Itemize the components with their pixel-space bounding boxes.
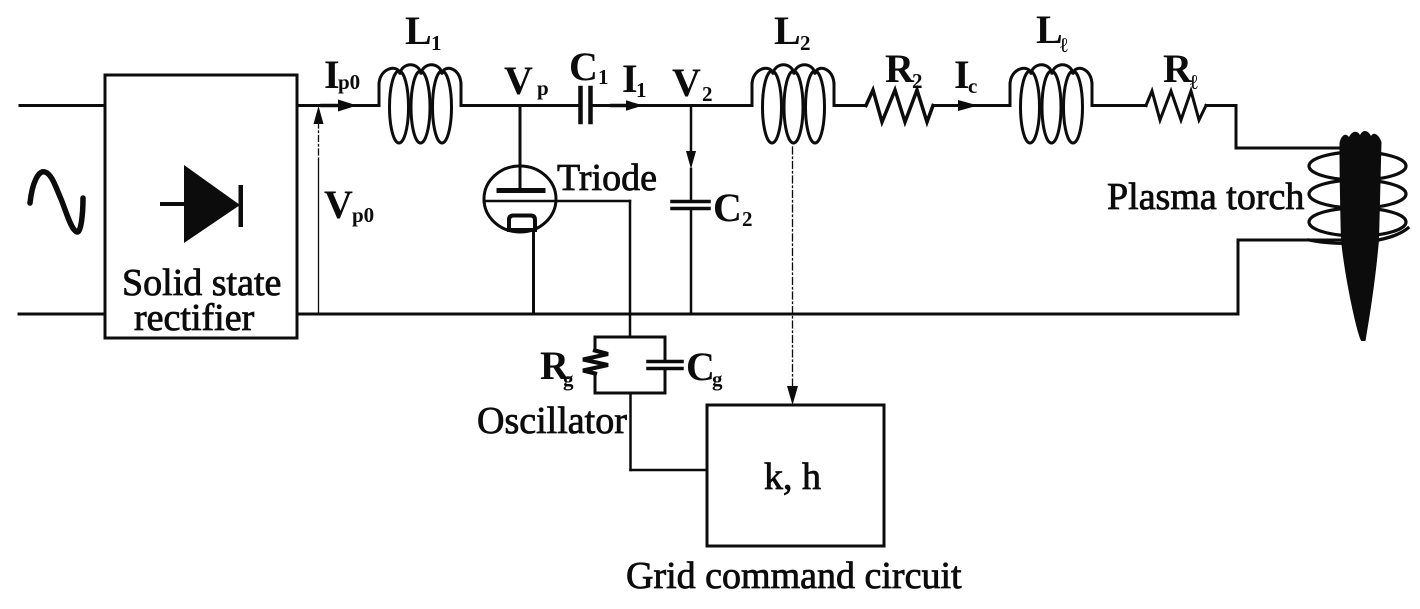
bottom rail [297, 313, 1238, 316]
node V2 wire down with arrow [690, 106, 693, 154]
svg-text:L: L [405, 8, 432, 53]
svg-text:R: R [1163, 46, 1193, 91]
svg-text:L: L [774, 8, 801, 53]
diode D1 [160, 165, 243, 243]
svg-text:Plasma torch: Plasma torch [1107, 176, 1304, 218]
wire top: box to L1 [297, 104, 379, 107]
plasma torch flame [1340, 131, 1382, 341]
resistor Rl [1146, 91, 1206, 120]
wire L2 to R2 [834, 104, 866, 107]
svg-text:k, h: k, h [764, 456, 821, 498]
svg-text:2: 2 [742, 207, 753, 231]
svg-text:1: 1 [431, 31, 442, 55]
svg-text:R: R [885, 46, 915, 91]
svg-text:1: 1 [598, 65, 609, 89]
capacitor Cg [648, 360, 682, 364]
svg-text:c: c [968, 74, 977, 98]
dash-dot feedback arrow to k,h box [792, 147, 794, 387]
wire C1 to L2 [593, 104, 752, 107]
svg-text:C: C [569, 44, 598, 89]
arrow Vp0 dash-dot [318, 160, 320, 314]
svg-text:rectifier: rectifier [134, 297, 255, 339]
svg-text:V: V [504, 58, 533, 103]
arrow Ic [958, 100, 978, 111]
solid state rectifier box [105, 75, 297, 338]
triode U1 [484, 166, 556, 232]
capacitor C2 [672, 200, 709, 204]
svg-text:p: p [537, 76, 549, 100]
plasma torch coil [1309, 152, 1408, 243]
svg-text:ℓ: ℓ [1060, 33, 1068, 57]
arrow I1 [612, 104, 628, 108]
oscillator network RgCg [595, 337, 665, 393]
svg-text:g: g [563, 367, 574, 391]
wire bottom-left [19, 313, 105, 316]
inductor L1 [379, 65, 461, 143]
svg-text:2: 2 [800, 31, 811, 55]
node Vp wire to triode plate [519, 106, 522, 190]
svg-text:1: 1 [636, 78, 647, 102]
inductor Ll [1010, 65, 1092, 143]
svg-text:C: C [713, 185, 742, 230]
svg-text:2: 2 [702, 82, 713, 106]
svg-text:2: 2 [912, 69, 923, 93]
svg-text:ℓ: ℓ [1190, 70, 1198, 94]
inductor L2 [752, 65, 834, 143]
k,h box [707, 405, 884, 546]
wire Rl to step [1206, 104, 1236, 107]
wire Ll to Rl [1092, 104, 1146, 107]
resistor Rg [583, 351, 608, 374]
svg-text:C: C [686, 344, 715, 389]
svg-text:V: V [324, 182, 353, 227]
grid wire down [629, 201, 632, 337]
svg-text:g: g [712, 367, 723, 391]
wire top-left [20, 104, 105, 107]
svg-text:p0: p0 [338, 70, 360, 94]
wire osc to k,h box [629, 393, 632, 470]
cathode lead [532, 230, 535, 314]
svg-text:Grid command circuit: Grid command circuit [626, 555, 962, 597]
ac source sine [30, 172, 83, 232]
svg-text:p0: p0 [352, 203, 374, 227]
svg-text:Oscillator: Oscillator [477, 400, 627, 442]
svg-text:Triode: Triode [557, 157, 657, 199]
arrow Ip0 [322, 104, 340, 108]
svg-text:L: L [1036, 7, 1063, 52]
wire L1 to C1 [461, 104, 578, 107]
svg-text:V: V [672, 60, 701, 105]
capacitor C1 [578, 88, 583, 122]
resistor R2 [866, 90, 933, 122]
wire R2 to Ll [933, 104, 1010, 107]
